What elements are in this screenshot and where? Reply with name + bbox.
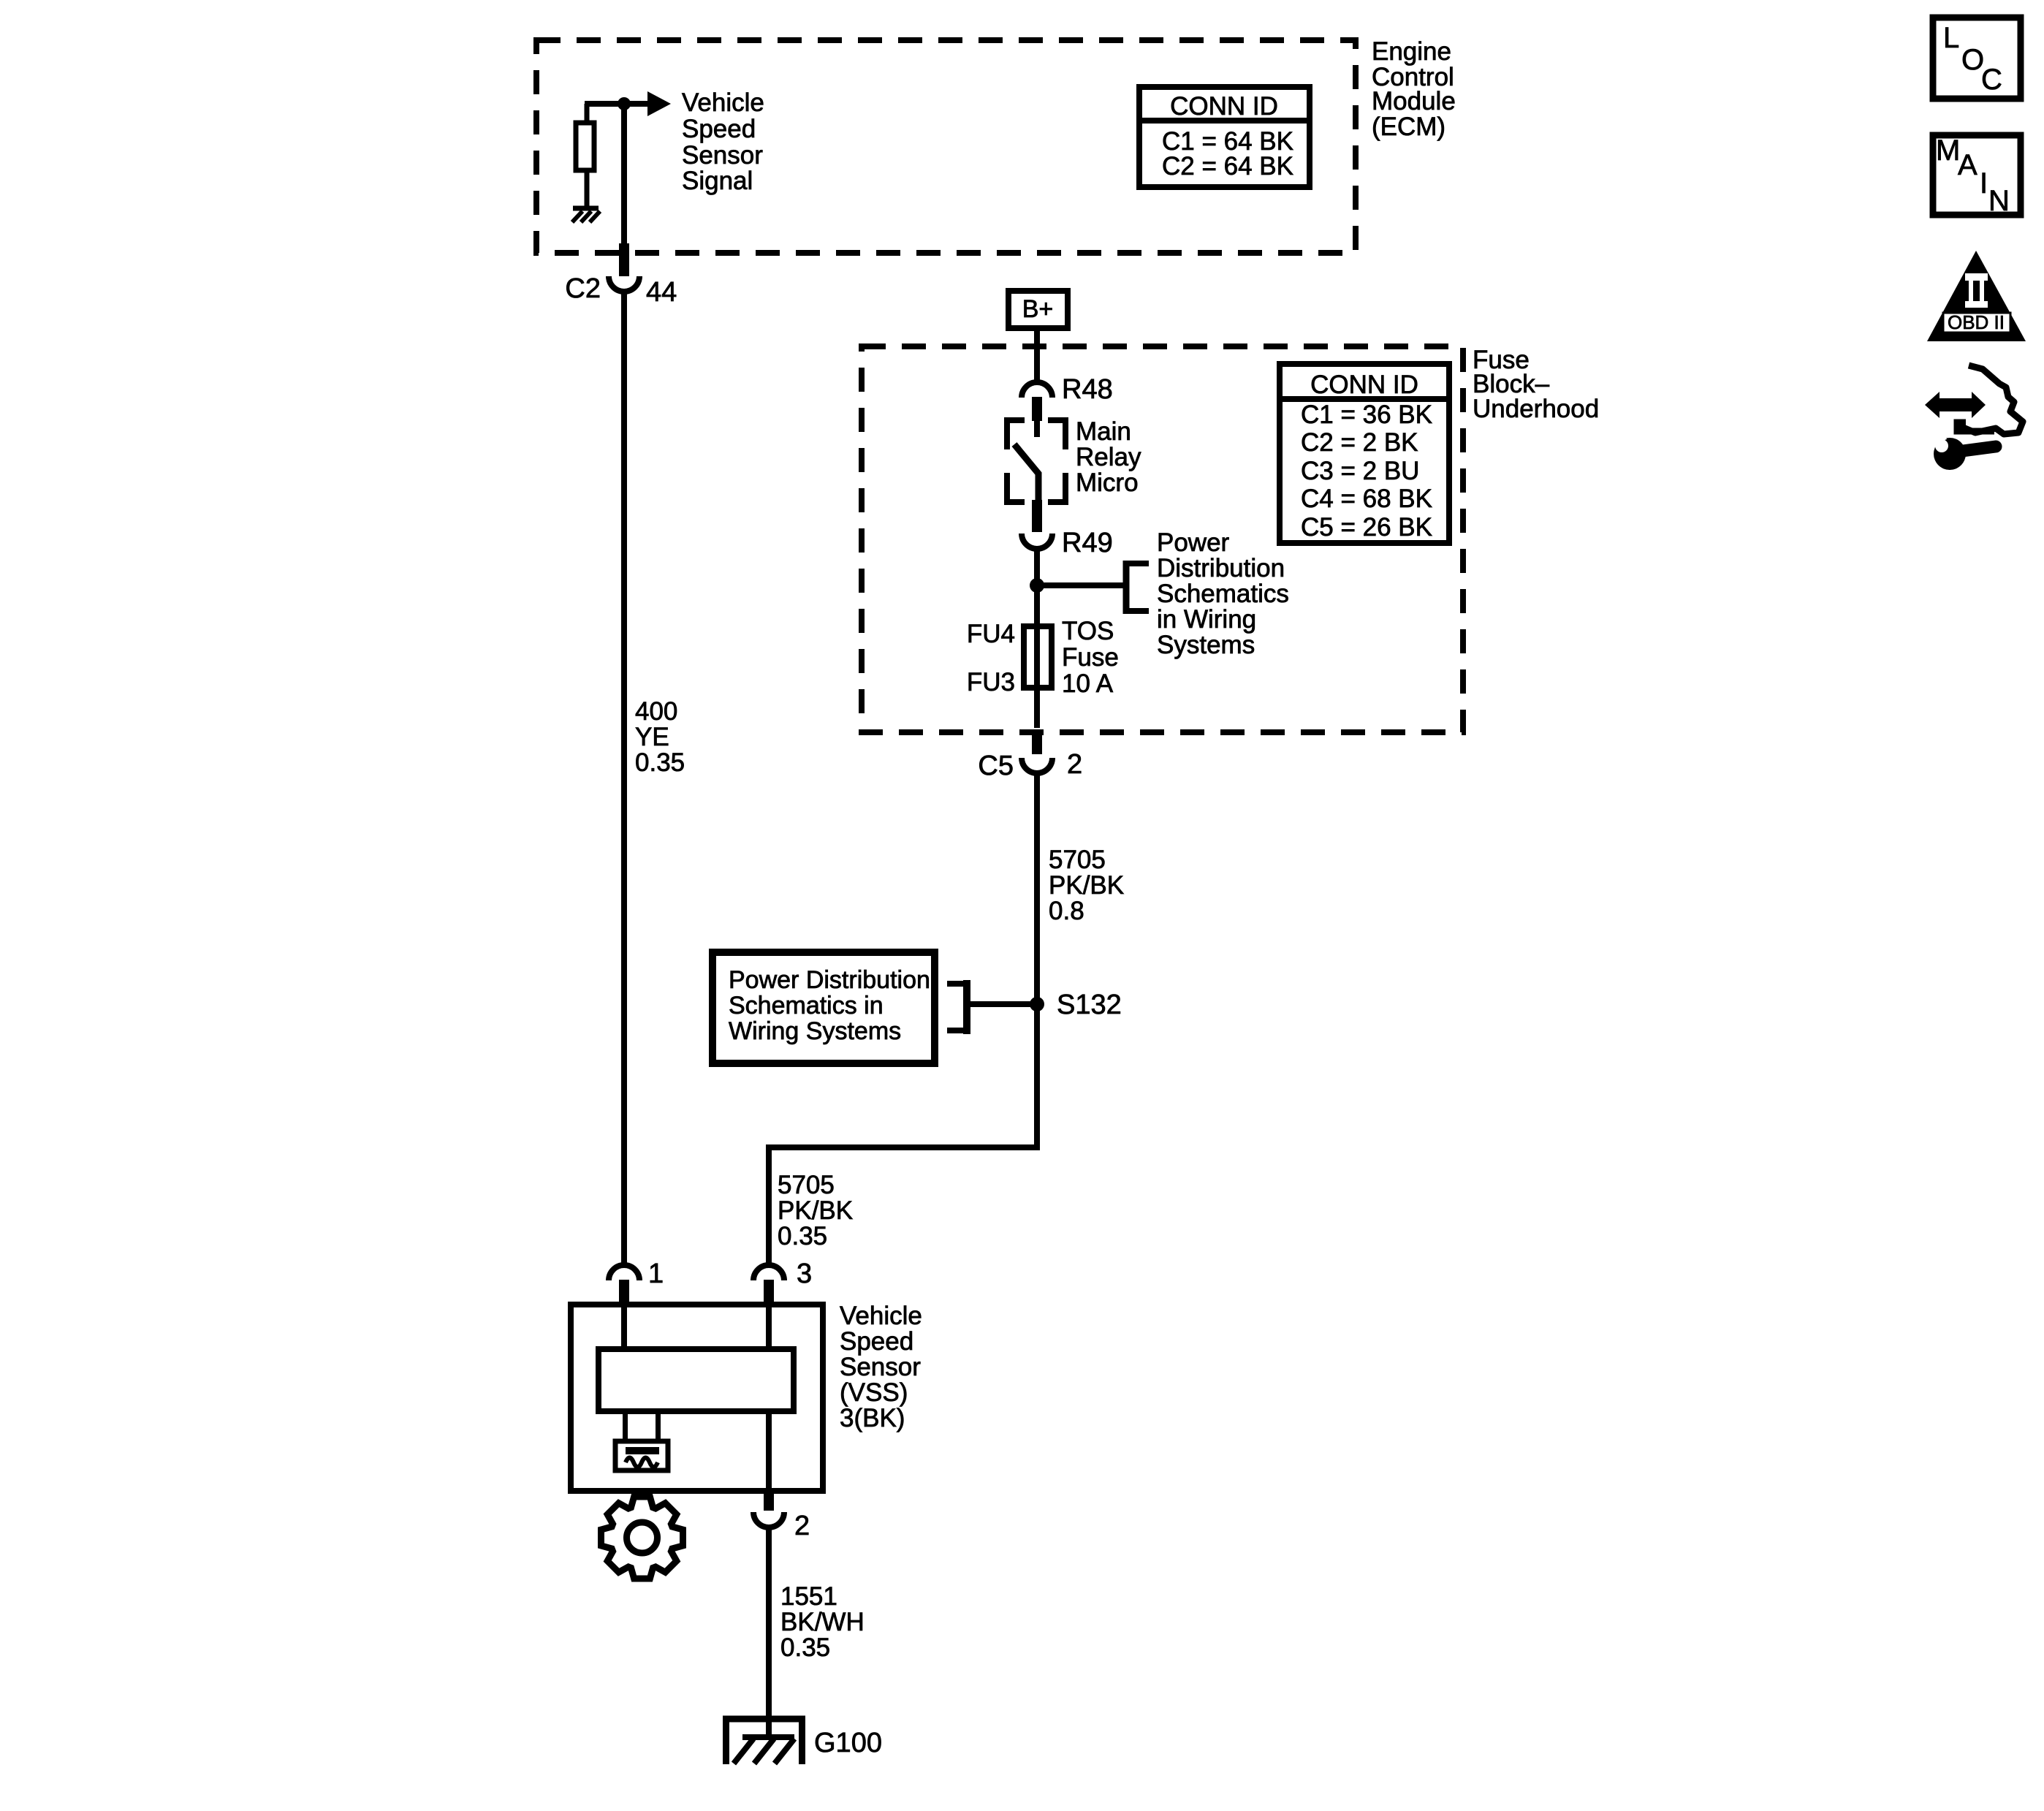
svg-text:I: I [1980,167,1988,200]
svg-text:0.35: 0.35 [635,748,685,777]
svg-text:C2 = 64 BK: C2 = 64 BK [1162,152,1293,181]
svg-text:FU4: FU4 [967,620,1015,648]
svg-text:OBD II: OBD II [1948,311,2005,333]
svg-text:Relay: Relay [1076,443,1141,471]
svg-text:0.35: 0.35 [780,1633,830,1662]
svg-text:(VSS): (VSS) [840,1378,908,1407]
svg-text:C4 = 68 BK: C4 = 68 BK [1301,485,1432,513]
svg-text:L: L [1943,22,1959,54]
svg-text:R48: R48 [1062,374,1113,405]
svg-text:C5: C5 [978,751,1014,781]
svg-text:Power Distribution: Power Distribution [729,966,930,994]
svg-text:Sensor: Sensor [840,1353,921,1381]
svg-text:5705: 5705 [778,1171,835,1199]
svg-text:Speed: Speed [682,115,756,143]
svg-text:Engine: Engine [1372,37,1451,66]
svg-text:3: 3 [797,1258,812,1289]
svg-text:Micro: Micro [1076,468,1139,497]
svg-text:44: 44 [646,277,677,308]
svg-text:Power: Power [1157,528,1230,557]
svg-text:S132: S132 [1057,990,1122,1020]
svg-text:C2 = 2 BK: C2 = 2 BK [1301,428,1418,457]
svg-text:Vehicle: Vehicle [840,1302,922,1330]
svg-text:CONN ID: CONN ID [1170,92,1278,121]
svg-text:BK/WH: BK/WH [780,1608,865,1636]
svg-text:PK/BK: PK/BK [1049,871,1124,900]
svg-text:Wiring Systems: Wiring Systems [729,1017,901,1045]
svg-text:Speed: Speed [840,1327,913,1356]
svg-text:R49: R49 [1062,528,1113,558]
svg-text:Module: Module [1372,87,1456,115]
svg-text:YE: YE [635,723,669,751]
svg-text:Vehicle: Vehicle [682,88,764,117]
svg-text:Fuse: Fuse [1062,643,1119,672]
svg-text:0.8: 0.8 [1049,897,1084,925]
svg-text:Systems: Systems [1157,631,1255,659]
svg-text:FU3: FU3 [967,668,1015,696]
svg-text:3(BK): 3(BK) [840,1404,905,1432]
svg-text:in Wiring: in Wiring [1157,605,1256,634]
svg-text:C3 = 2 BU: C3 = 2 BU [1301,457,1419,485]
svg-text:PK/BK: PK/BK [778,1196,853,1225]
svg-text:N: N [1988,185,2010,217]
svg-text:TOS: TOS [1062,617,1114,645]
svg-text:Sensor: Sensor [682,141,763,170]
svg-text:CONN ID: CONN ID [1310,371,1418,399]
svg-text:Schematics: Schematics [1157,580,1289,608]
svg-text:C1 = 36 BK: C1 = 36 BK [1301,400,1432,429]
svg-text:C2: C2 [565,273,601,304]
svg-text:400: 400 [635,697,677,726]
svg-text:G100: G100 [814,1728,882,1758]
svg-text:Underhood: Underhood [1473,395,1599,423]
svg-text:5705: 5705 [1049,846,1106,874]
svg-text:2: 2 [794,1511,810,1541]
svg-text:2: 2 [1067,749,1082,780]
svg-text:1: 1 [648,1258,664,1289]
svg-text:C5 = 26 BK: C5 = 26 BK [1301,513,1432,542]
svg-text:Distribution: Distribution [1157,554,1285,582]
svg-text:A: A [1958,149,1977,181]
svg-text:0.35: 0.35 [778,1222,827,1250]
svg-text:B+: B+ [1022,295,1054,323]
svg-text:1551: 1551 [780,1582,837,1611]
svg-text:Schematics in: Schematics in [729,992,884,1020]
svg-text:(ECM): (ECM) [1372,113,1445,141]
svg-text:M: M [1936,134,1960,167]
svg-text:10 A: 10 A [1062,669,1114,698]
svg-text:Main: Main [1076,417,1131,446]
svg-text:Signal: Signal [682,167,753,195]
svg-text:C: C [1981,64,2002,96]
